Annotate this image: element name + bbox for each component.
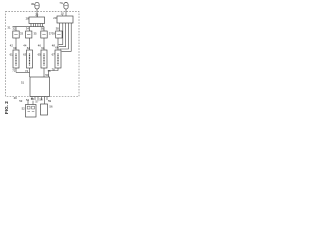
svg-text:67: 67 [52,52,56,56]
wire tower 66 down [49,68,59,77]
block 36 [41,31,47,38]
connector box 26 [29,17,45,24]
svg-text:51: 51 [21,81,25,85]
wire drop to block 32 [15,27,17,31]
label tick oval 30 [34,3,35,6]
wire block 34 to tower 62 [29,38,31,50]
wire from oval 30 to connector box [36,9,38,17]
box 56 [41,104,48,115]
connector box 10 pin to block 38 [59,23,61,31]
oval transducer 70 [64,3,68,10]
wire from oval 70 to connector box 10 [65,9,67,16]
bus line 3 [60,23,69,49]
battery marks [28,111,35,113]
dashed enclosure border [6,12,80,97]
block 34 [26,31,32,38]
tower block 60 [13,50,19,68]
tower block 62 [27,50,33,68]
battery cell 1 [27,106,30,109]
block 36 inner mark [42,34,45,36]
svg-text:36: 36 [41,27,45,31]
svg-text:54: 54 [26,98,30,102]
wire main block to box 56 [44,97,46,105]
tower block 64 [41,50,47,68]
svg-text:10: 10 [61,12,65,16]
svg-text:26: 26 [35,13,39,17]
tower 66 inner text [57,54,59,66]
label tick connector 26 [37,16,39,17]
wire tower 60 down [15,68,17,72]
svg-text:78: 78 [52,68,56,72]
svg-text:28: 28 [26,16,30,20]
svg-text:59: 59 [48,99,52,103]
wire drop to block 34 [29,27,31,31]
tower 64 inner text [43,54,45,66]
block 32 [13,31,19,38]
block 38 [56,31,62,38]
connector box pins (left box bottom) [31,24,43,27]
svg-text:55: 55 [31,97,35,101]
wire tower 64 down [43,68,45,77]
svg-text:20: 20 [53,16,57,20]
wire block 32 to tower 60 [15,38,17,50]
bus line 1 [59,23,63,44]
block 38 inner mark [57,34,60,36]
battery box pins [28,101,33,105]
svg-text:52: 52 [22,107,26,111]
svg-text:FIG. 2: FIG. 2 [4,101,9,114]
wire drop to block 36 [43,27,45,31]
svg-text:33: 33 [20,31,24,35]
svg-text:50: 50 [45,73,49,77]
svg-text:34: 34 [26,27,30,31]
svg-text:66: 66 [55,46,59,50]
svg-text:38: 38 [56,26,60,30]
bus line 4 [62,23,72,51]
battery box 52 [26,105,37,118]
svg-text:70: 70 [59,1,63,5]
oval 30 inner mark [35,5,38,7]
svg-text:74: 74 [25,69,29,73]
svg-text:65: 65 [38,52,42,56]
svg-text:58: 58 [39,97,43,101]
svg-text:30: 30 [31,2,35,6]
svg-text:60: 60 [13,46,17,50]
tower 60 inner text [15,54,17,66]
svg-text:56: 56 [49,105,53,109]
block 32 inner mark [14,34,17,36]
svg-text:53: 53 [19,99,23,103]
block 34 inner mark [27,34,30,36]
bus line 2 [59,23,66,47]
svg-text:31: 31 [7,26,11,30]
svg-text:49: 49 [14,96,18,100]
battery cell 2 [32,106,35,109]
wire block 38 to tower 66 [57,38,59,50]
svg-text:32: 32 [12,27,16,31]
svg-text:62: 62 [27,46,31,50]
distribution wire [13,26,45,28]
oval transducer 30 [35,2,39,8]
svg-text:61: 61 [10,52,14,56]
wire tower 62 down [29,68,31,77]
tower block 66 [55,50,61,68]
main block 50 [30,77,50,97]
svg-text:63: 63 [23,52,27,56]
connector box 10 [57,16,73,23]
svg-text:35: 35 [34,31,38,35]
label tick connector 10 [61,15,63,16]
label tick oval 70 [63,3,64,6]
bus to main block [16,71,30,73]
svg-text:64: 64 [41,46,45,50]
svg-text:39: 39 [52,31,56,35]
wire block 36 to tower 64 [43,38,45,50]
main block bottom pins [32,97,47,101]
tower 62 inner text [29,54,31,66]
oval 70 inner mark [64,5,67,7]
svg-text:72: 72 [12,69,16,73]
